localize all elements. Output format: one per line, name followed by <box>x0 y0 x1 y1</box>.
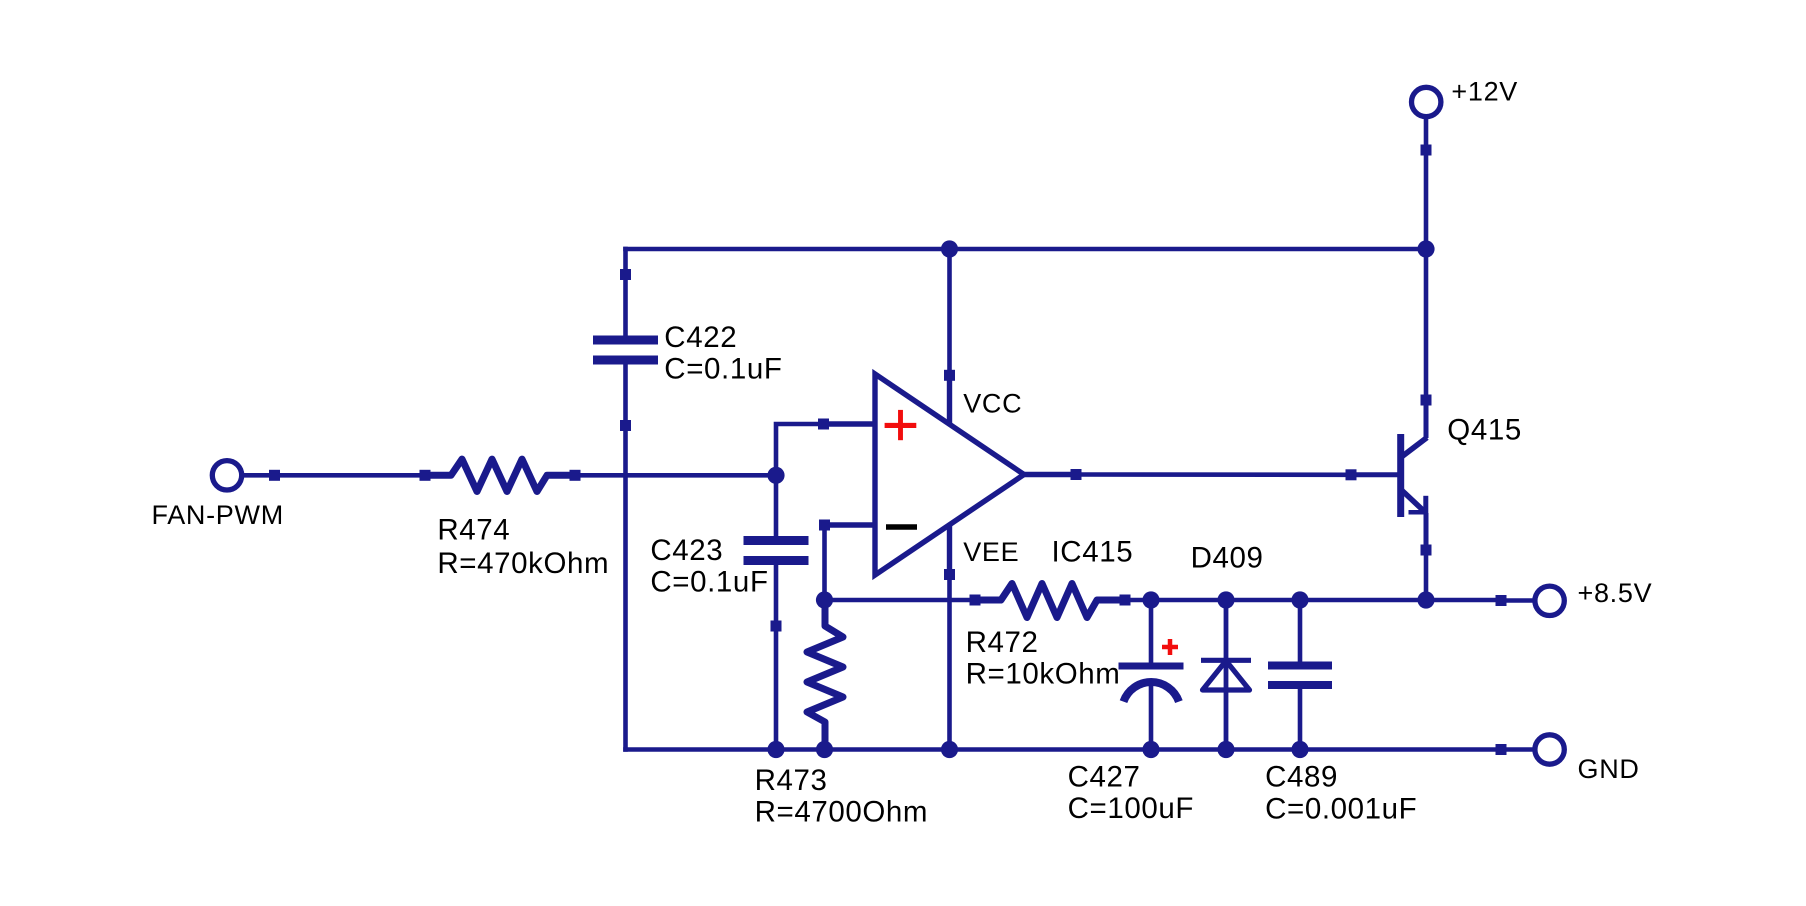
svg-text:C427: C427 <box>1068 761 1141 794</box>
svg-text:C=0.1uF: C=0.1uF <box>664 352 782 385</box>
svg-text:C423: C423 <box>650 534 723 567</box>
svg-text:C=0.001uF: C=0.001uF <box>1265 792 1417 825</box>
wire top rail to Q415 collector <box>1424 249 1429 400</box>
svg-text:R=10kOhm: R=10kOhm <box>966 658 1121 691</box>
svg-text:FAN-PWM: FAN-PWM <box>152 500 284 530</box>
svg-text:Q415: Q415 <box>1447 414 1522 447</box>
node: +8.5V rail / C489 <box>1291 591 1308 608</box>
node: junction top rail / VCC branch <box>941 240 958 257</box>
svg-text:+12V: +12V <box>1451 76 1518 106</box>
diode D409 <box>1191 542 1264 750</box>
svg-text:R=470kOhm: R=470kOhm <box>437 547 609 580</box>
node: +8.5V rail / D409 <box>1217 591 1234 608</box>
svg-text:GND: GND <box>1578 754 1640 784</box>
svg-text:IC415: IC415 <box>1052 536 1134 569</box>
wire C423 bottom pin to ground rail <box>774 626 779 750</box>
capacitor C427 (electrolytic) <box>1068 600 1194 825</box>
node: +8.5V rail / C427 <box>1142 591 1159 608</box>
svg-text:C422: C422 <box>664 321 737 354</box>
node: ground rail / R473 <box>816 741 833 758</box>
terminal +8.5V <box>1496 578 1653 616</box>
wire input net FAN-PWM to R474 <box>275 473 426 478</box>
C427 polarity + mark <box>1162 645 1178 650</box>
capacitor C422 <box>593 269 782 431</box>
wire Q415 emitter to +8.5V net <box>1424 550 1429 600</box>
svg-text:C489: C489 <box>1265 761 1338 794</box>
wire node B to R472 <box>825 598 976 603</box>
node: ground rail / VEE branch <box>941 741 958 758</box>
wire R472 to +8.5V net <box>1125 598 1501 603</box>
svg-text:R474: R474 <box>437 514 510 547</box>
svg-text:+8.5V: +8.5V <box>1578 578 1653 608</box>
svg-text:D409: D409 <box>1191 542 1264 575</box>
svg-text:R472: R472 <box>966 626 1039 659</box>
svg-text:VCC: VCC <box>963 389 1022 419</box>
resistor R474 <box>420 459 610 580</box>
wire C422 bottom pin down to ground rail <box>623 426 628 752</box>
terminal FAN-PWM <box>152 461 284 531</box>
resistor R473 <box>755 600 928 829</box>
node B: - input / R473 / R472 <box>816 591 833 608</box>
node A: input / + input / C423 <box>767 467 784 484</box>
wire R474 to node A <box>575 473 776 478</box>
op-amp + input mark <box>885 423 917 428</box>
terminal +12V <box>1412 76 1519 155</box>
wire top rail +12V net <box>623 247 1426 252</box>
node: ground rail / C427 <box>1142 741 1159 758</box>
node: ground rail / C489 <box>1291 741 1308 758</box>
terminal GND <box>1496 735 1640 784</box>
wire VEE pin down to ground rail <box>947 575 952 750</box>
node: junction top rail / collector line <box>1417 240 1434 257</box>
node: ground rail / D409 <box>1217 741 1234 758</box>
wire ground rail <box>623 747 1501 752</box>
node: ground rail / C423 <box>767 741 784 758</box>
op-amp IC415 <box>818 370 1133 580</box>
svg-text:C=0.1uF: C=0.1uF <box>650 565 768 598</box>
wire op-amp - input down to node B <box>822 525 827 600</box>
svg-text:R=4700Ohm: R=4700Ohm <box>755 796 928 829</box>
wire node A up to op-amp + input <box>776 424 824 478</box>
node: +8.5V rail / emitter <box>1417 591 1434 608</box>
svg-text:VEE: VEE <box>963 537 1019 567</box>
wire +12V terminal to top rail <box>1424 150 1429 249</box>
capacitor C423 <box>650 475 808 631</box>
wire VCC branch from top rail to op-amp VCC pin <box>947 249 952 375</box>
capacitor C489 <box>1265 600 1417 825</box>
svg-text:C=100uF: C=100uF <box>1068 792 1194 825</box>
wire C422 upper lead to top rail <box>623 247 628 275</box>
svg-text:R473: R473 <box>755 764 828 797</box>
transistor Q415 <box>1346 395 1522 556</box>
op-amp - input mark <box>886 524 917 530</box>
wire op-amp output to Q415 base <box>1076 472 1351 477</box>
resistor R472 <box>966 584 1131 691</box>
